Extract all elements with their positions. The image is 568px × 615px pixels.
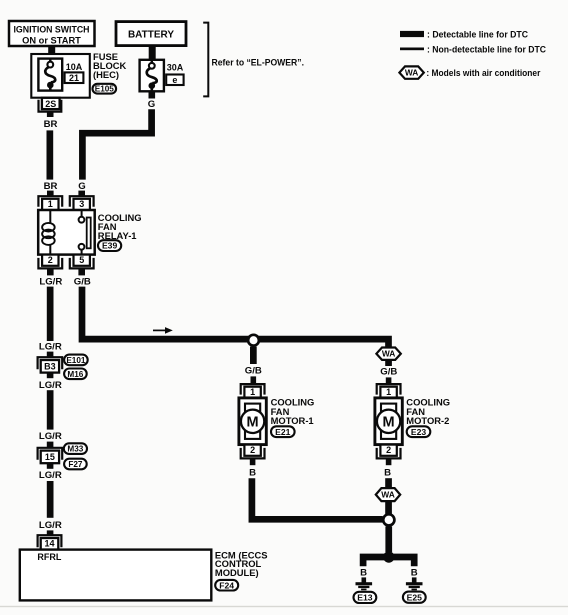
wire label BR <box>44 119 58 130</box>
wire LG/R 15 to ECM <box>47 481 54 518</box>
svg-text:E39: E39 <box>102 241 118 251</box>
connector ref oval E23 <box>407 426 431 437</box>
wire label LG/R <box>39 341 62 352</box>
svg-text:M33: M33 <box>67 445 83 454</box>
svg-text:E13: E13 <box>357 593 373 603</box>
wire label B (motor-1) <box>249 467 256 478</box>
connector ref oval F27 <box>64 459 87 470</box>
svg-text:WA: WA <box>381 490 395 500</box>
wire LG/R B3 to 15 <box>47 390 54 429</box>
wire label B (right ground) <box>411 567 418 578</box>
connector ref oval E105 <box>93 84 117 94</box>
wire label LG/R <box>39 470 62 481</box>
legend text models with air conditioner <box>426 68 540 78</box>
ground splice (solid dot) <box>383 551 394 562</box>
svg-text:LG/R: LG/R <box>39 380 62 391</box>
wire B motor-1 down and right to junction <box>252 478 383 519</box>
svg-text:LG/R: LG/R <box>39 276 62 287</box>
wire label G/B (motor-2) <box>380 366 397 377</box>
svg-text:B3: B3 <box>44 362 56 372</box>
label COOLING FAN RELAY-1 <box>98 212 142 241</box>
in-line connector 15 <box>38 448 63 463</box>
wire stub below connector B3 <box>47 373 54 379</box>
svg-text:1: 1 <box>250 387 255 397</box>
wire stub below relay pin 5 <box>78 269 85 275</box>
wire G/B relay pin 5 to fan motors (corner + main run) <box>82 287 389 348</box>
wire label BR <box>44 181 58 192</box>
wire junction circle to splice <box>385 526 392 552</box>
svg-text:1: 1 <box>48 199 53 209</box>
symbol WA on motor-2 ground <box>376 488 400 501</box>
wire stub to relay pin 3 <box>78 191 85 197</box>
svg-text:G/B: G/B <box>74 276 91 287</box>
legend detectable line sample <box>400 31 424 37</box>
svg-text:10A: 10A <box>66 62 83 72</box>
label MOTOR-2 <box>406 397 450 426</box>
svg-text:B: B <box>249 467 256 478</box>
pin name RFRL <box>37 552 61 562</box>
connector ref oval M33 <box>64 443 87 454</box>
svg-text:14: 14 <box>44 539 54 549</box>
svg-text:F24: F24 <box>219 580 234 590</box>
fuse id box 21 <box>65 72 84 83</box>
refer-to bracket <box>203 23 208 97</box>
svg-text:G: G <box>78 181 85 192</box>
fuse 10A (fuse block HEC) <box>38 59 62 91</box>
svg-text:G: G <box>148 99 155 110</box>
svg-text:M: M <box>383 414 395 430</box>
label FUSE BLOCK (HEC) <box>93 51 127 80</box>
wire stub below E21 <box>250 458 256 465</box>
wire label B (motor-2) <box>384 467 391 478</box>
wire label G <box>148 99 155 110</box>
svg-text:M16: M16 <box>67 370 83 379</box>
wire stub motor-2 below WA <box>385 360 392 366</box>
cooling fan relay-1 body <box>38 210 94 255</box>
connector pin 1 of E21 <box>241 384 265 398</box>
wire stub below relay pin 2 <box>47 269 54 275</box>
ground symbol E25 <box>406 577 423 590</box>
svg-text:G/B: G/B <box>380 366 397 377</box>
cooling fan motor E23 body <box>375 398 402 445</box>
wire BR (ignition feed) <box>47 130 54 179</box>
svg-text:LG/R: LG/R <box>39 341 62 352</box>
svg-text:MODULE): MODULE) <box>215 567 259 578</box>
svg-text:G/B: G/B <box>245 365 262 376</box>
relay coil <box>42 210 55 255</box>
note text Refer to EL-POWER <box>212 58 305 68</box>
svg-text:E23: E23 <box>411 427 427 437</box>
svg-text:1: 1 <box>386 387 391 397</box>
battery box <box>116 22 186 46</box>
fuse id box e <box>166 75 183 86</box>
svg-text:B: B <box>384 467 391 478</box>
svg-text:M: M <box>247 414 259 430</box>
svg-text:E101: E101 <box>66 356 86 365</box>
svg-text:2S: 2S <box>45 99 56 109</box>
ignition switch box <box>9 21 95 46</box>
current flow arrow <box>153 327 173 334</box>
svg-text:21: 21 <box>69 73 79 83</box>
wire label B (left ground) <box>360 567 367 578</box>
wire B motor-2 to WA <box>385 478 392 488</box>
relay connector pin 5 <box>70 255 94 269</box>
svg-text:B: B <box>360 567 367 578</box>
ground ref oval E25 <box>403 592 426 603</box>
wire stub above connector 14 <box>47 530 54 535</box>
svg-text:E25: E25 <box>407 592 423 602</box>
svg-text:ON or START: ON or START <box>22 35 81 45</box>
label MOTOR-1 <box>271 397 315 426</box>
svg-text:15: 15 <box>45 452 55 462</box>
wire stub above connector 15 <box>47 442 54 448</box>
svg-text:E21: E21 <box>275 427 291 437</box>
wire label LG/R <box>39 380 62 391</box>
page separator line <box>0 606 568 607</box>
ground ref oval E13 <box>354 592 377 603</box>
connector ref oval M16 <box>64 369 87 380</box>
ECM (ECCS control module) box <box>20 550 212 601</box>
svg-text:LG/R: LG/R <box>39 520 62 531</box>
in-line connector B3 <box>38 357 63 372</box>
fuse 30A <box>140 60 164 92</box>
svg-text:LG/R: LG/R <box>39 470 62 481</box>
connector pin 2 of E23 <box>377 445 401 459</box>
junction node (open circle) motors common ground <box>383 514 394 525</box>
wire: battery to fuse 30A <box>149 46 156 60</box>
wire G/B junction to motor-1 <box>250 347 257 364</box>
svg-text:3: 3 <box>79 199 84 209</box>
legend symbol WA hexagon <box>399 66 423 78</box>
svg-text:BR: BR <box>44 119 58 130</box>
fuse block box <box>31 54 90 98</box>
wire stub below E23 <box>386 458 392 465</box>
ECM connector 14 <box>38 535 62 549</box>
wire stub below connector 2S <box>47 112 54 117</box>
wire label LG/R <box>39 520 62 531</box>
svg-text:MOTOR-2: MOTOR-2 <box>406 415 449 426</box>
svg-text:WA: WA <box>405 68 419 78</box>
svg-text:e: e <box>172 75 177 85</box>
svg-text:MOTOR-1: MOTOR-1 <box>271 415 314 426</box>
label ECM (ECCS CONTROL MODULE) <box>215 549 268 578</box>
svg-text:BR: BR <box>44 181 58 192</box>
relay connector pin 3 <box>70 196 94 210</box>
connector ref oval E101 <box>64 355 88 366</box>
svg-text:RFRL: RFRL <box>37 552 61 562</box>
svg-text:5: 5 <box>79 255 84 265</box>
ground symbol E13 <box>356 577 373 590</box>
svg-text:LG/R: LG/R <box>39 431 62 442</box>
svg-text:: Non-detectable line for DTC: : Non-detectable line for DTC <box>427 45 546 55</box>
wire stub below fuse 30A <box>149 91 156 98</box>
svg-text:IGNITION SWITCH: IGNITION SWITCH <box>14 24 90 34</box>
svg-text:(HEC): (HEC) <box>93 69 119 80</box>
wire WA to junction circle <box>385 501 392 514</box>
relay connector pin 1 <box>38 196 62 210</box>
connector ref oval E39 <box>98 240 121 251</box>
connector pin 1 of E23 <box>377 384 401 398</box>
svg-text:2: 2 <box>48 255 53 265</box>
wire label LG/R <box>39 276 62 287</box>
connector ref oval F24 <box>215 580 238 591</box>
svg-text:B: B <box>411 567 418 578</box>
relay connector pin 2 <box>38 255 62 269</box>
wire label LG/R <box>39 431 62 442</box>
svg-text:WA: WA <box>382 349 396 359</box>
legend text detectable <box>427 29 528 39</box>
wire LG/R relay to B3 <box>47 287 54 341</box>
symbol WA on motor-2 feed <box>376 348 400 360</box>
wire stub below connector 15 <box>47 463 54 469</box>
connector 2S <box>39 98 62 112</box>
svg-text:2: 2 <box>386 445 391 455</box>
cooling fan motor E21 body <box>239 398 266 445</box>
connector ref oval E21 <box>271 426 295 437</box>
legend text non-detectable <box>427 45 546 55</box>
wire label G/B (motor-1) <box>245 365 262 376</box>
wire: ignition switch to fuse block <box>48 46 55 55</box>
legend non-detectable line sample <box>400 48 424 51</box>
wire G from battery (with corner to relay pin 3) <box>82 109 151 179</box>
svg-text:: Detectable line for DTC: : Detectable line for DTC <box>427 29 528 39</box>
junction node to motor-1 (open circle) <box>248 335 259 346</box>
svg-text:30A: 30A <box>167 63 184 73</box>
wire stub to relay pin 1 <box>47 191 54 197</box>
svg-text:E105: E105 <box>95 85 115 94</box>
wire stub above motor-2 pin 1 <box>386 377 392 383</box>
wire stub above connector B3 <box>47 352 54 358</box>
svg-text:: Models with air conditioner: : Models with air conditioner <box>426 68 540 78</box>
wire label G/B <box>74 276 91 287</box>
wire label G <box>78 181 85 192</box>
relay switch contact <box>79 210 91 255</box>
svg-text:Refer to “EL-POWER”.: Refer to “EL-POWER”. <box>212 58 305 68</box>
wire splice to grounds E13/E25 <box>363 557 414 566</box>
svg-text:BATTERY: BATTERY <box>128 29 174 40</box>
wire stub above motor-1 pin 1 <box>251 376 257 383</box>
svg-text:2: 2 <box>250 445 255 455</box>
svg-text:F27: F27 <box>68 460 83 469</box>
connector pin 2 of E21 <box>241 445 265 459</box>
